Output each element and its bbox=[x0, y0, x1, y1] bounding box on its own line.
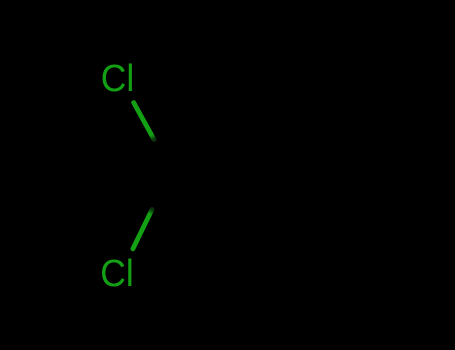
svg-text:Cl: Cl bbox=[101, 58, 135, 100]
svg-text:Cl: Cl bbox=[100, 253, 134, 295]
bond C-Cl (upper, green half) bbox=[134, 103, 154, 140]
bond C-Cl (lower, green half) bbox=[133, 210, 152, 249]
